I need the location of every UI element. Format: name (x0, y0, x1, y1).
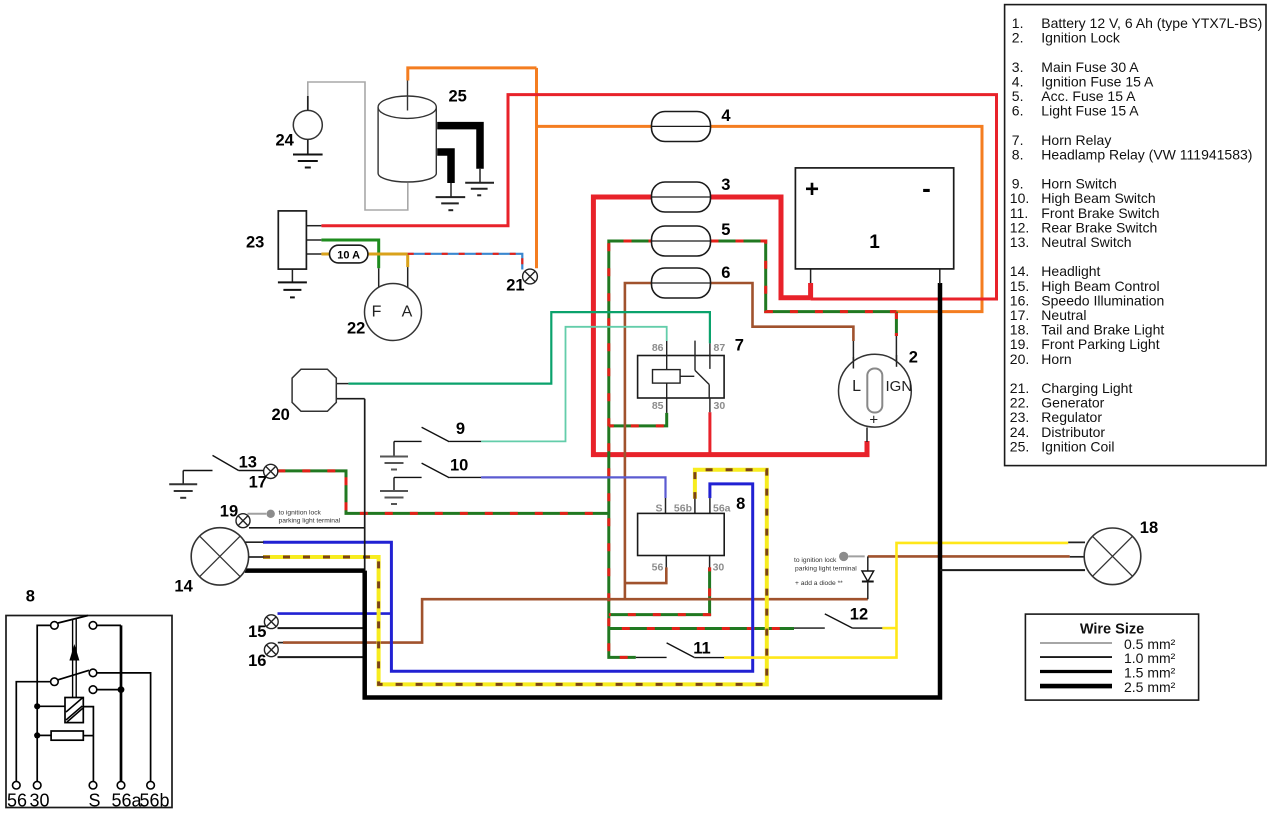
wire green-red branch rear brake switch (609, 627, 794, 630)
svg-text:16.: 16. (1010, 292, 1029, 308)
svg-text:8: 8 (26, 588, 35, 606)
wire size sample 1.0 (1040, 656, 1112, 658)
svg-text:+: + (805, 176, 819, 203)
coil thick wire left (437, 152, 451, 183)
svg-text:13: 13 (239, 454, 257, 472)
svg-text:Horn Relay: Horn Relay (1041, 132, 1111, 148)
svg-text:8.: 8. (1012, 146, 1024, 162)
wire green-red IGN drop (895, 312, 898, 336)
svg-text:Front Parking Light: Front Parking Light (1041, 336, 1159, 352)
wire green generator F (321, 240, 378, 268)
wire amber regulator to generator A (321, 253, 407, 256)
svg-text:5: 5 (721, 221, 730, 239)
distributor ground (293, 155, 323, 168)
wire yellow brake light (724, 543, 1068, 658)
svg-text:4.: 4. (1012, 73, 1024, 89)
svg-text:8: 8 (736, 495, 745, 513)
svg-text:Neutral: Neutral (1041, 307, 1086, 323)
rear brake switch 12 (794, 614, 882, 628)
svg-text:10.: 10. (1010, 190, 1029, 206)
wire black stub horn top (336, 383, 348, 385)
svg-text:15.: 15. (1010, 278, 1029, 294)
wire black stub regulator DF (306, 239, 321, 241)
wire orange coil top (408, 68, 537, 81)
svg-text:19.: 19. (1010, 336, 1029, 352)
svg-text:10: 10 (450, 457, 468, 475)
svg-text:16: 16 (248, 652, 266, 670)
svg-text:Light Fuse 15 A: Light Fuse 15 A (1041, 103, 1139, 119)
svg-text:Ignition Fuse 15 A: Ignition Fuse 15 A (1041, 73, 1154, 89)
wire thick black main ground (365, 283, 940, 698)
fuse 3 (652, 182, 711, 212)
svg-text:24.: 24. (1010, 424, 1029, 440)
inset coil left wire (37, 705, 65, 707)
parking lamp 19 (236, 514, 250, 528)
svg-text:Main Fuse 30 A: Main Fuse 30 A (1041, 59, 1139, 75)
svg-text:Charging Light: Charging Light (1041, 380, 1132, 396)
svg-text:30: 30 (30, 791, 50, 811)
svg-text:13.: 13. (1010, 234, 1029, 250)
coil ground right (465, 183, 494, 196)
tail light 18 (1084, 528, 1141, 585)
svg-text:22.: 22. (1010, 395, 1029, 411)
svg-text:11.: 11. (1010, 205, 1028, 221)
svg-text:IGN: IGN (886, 378, 913, 395)
svg-text:Wire Size: Wire Size (1080, 622, 1144, 638)
svg-text:9.: 9. (1012, 176, 1024, 192)
inset coil (65, 698, 83, 723)
svg-text:Generator: Generator (1041, 395, 1104, 411)
svg-text:Neutral Switch: Neutral Switch (1041, 234, 1131, 250)
note dot at diode (839, 552, 848, 561)
svg-text:Rear Brake Switch: Rear Brake Switch (1041, 219, 1157, 235)
fuse 6 (652, 268, 711, 298)
wire gray distributor-coil (308, 82, 408, 210)
inset mid lever (58, 670, 89, 680)
svg-text:+: + (869, 412, 878, 429)
wire green-red branch relay8 pin30 (609, 567, 710, 614)
svg-text:56a: 56a (713, 503, 731, 515)
wire black stub relay7 pin85 (666, 398, 668, 413)
inset resistor left wire (37, 734, 51, 736)
wire black stub battery minus (939, 269, 941, 284)
svg-text:Regulator: Regulator (1041, 409, 1102, 425)
svg-text:3.: 3. (1012, 59, 1024, 75)
charging light 21 (523, 269, 538, 284)
battery 1 (795, 168, 953, 269)
inset wire mid-bottom to 56a junction (97, 689, 121, 691)
svg-text:18.: 18. (1010, 322, 1029, 338)
high beam lamp 15 (264, 615, 278, 629)
wire blue high beam main (263, 484, 753, 671)
wire thick black headlight ground (245, 568, 365, 573)
svg-text:87: 87 (714, 342, 726, 354)
svg-text:Acc. Fuse 15 A: Acc. Fuse 15 A (1041, 88, 1136, 104)
horn 20 (292, 369, 336, 411)
inset wire to S (92, 736, 94, 782)
relay 7 (638, 356, 725, 399)
wire blue high beam switch to relay8 S (481, 477, 665, 498)
svg-text:7.: 7. (1012, 132, 1024, 148)
wire size sample 1.5 (1040, 670, 1112, 673)
inset junction dot 30b (34, 732, 40, 738)
svg-text:3: 3 (721, 176, 730, 194)
svg-text:17.: 17. (1010, 307, 1029, 323)
wire black stub generator A (407, 267, 409, 288)
inset resistor (51, 731, 83, 740)
svg-text:11: 11 (693, 640, 710, 658)
wire black stub relay8 S (665, 498, 667, 513)
wire blue-red to charging light (408, 254, 523, 270)
svg-text:24: 24 (276, 132, 295, 150)
inset top switch lever (58, 616, 88, 624)
svg-text:Headlight: Headlight (1041, 263, 1100, 279)
svg-text:21.: 21. (1010, 380, 1029, 396)
ground switch 9 (380, 457, 408, 470)
wire orange vertical to charging light (535, 68, 538, 268)
svg-text:25: 25 (449, 88, 467, 106)
wire red relay7 pin30 (708, 412, 711, 454)
wire black stub relay8 pin30 (709, 556, 711, 568)
svg-text:to ignition lock: to ignition lock (279, 510, 322, 517)
inset contact circles (12, 622, 154, 789)
svg-text:-: - (922, 173, 931, 203)
diode (867, 556, 869, 571)
svg-text:85: 85 (652, 400, 664, 412)
inset actuator arrow (69, 644, 79, 661)
inset terminal labels (7, 791, 170, 811)
svg-text:Horn Switch: Horn Switch (1041, 176, 1116, 192)
ignition coil 25 (378, 96, 436, 182)
svg-text:21: 21 (506, 277, 524, 295)
wire black stub relay8 56a (709, 498, 711, 513)
svg-text:9: 9 (456, 420, 465, 438)
wire black stub relay8 pin56 (665, 556, 667, 568)
wire yellow rear brake branch (882, 627, 896, 630)
svg-text:5.: 5. (1012, 88, 1024, 104)
coil ground left (436, 197, 466, 210)
wire black stub IGN (895, 336, 897, 367)
wire brown branch relay8 pin56 (625, 567, 666, 583)
wire green-red branch neutral lamp (278, 471, 609, 514)
inset terminal circles (12, 781, 20, 789)
svg-text:14.: 14. (1010, 263, 1029, 279)
wire black stub regulator B+ (306, 225, 321, 227)
svg-text:17: 17 (249, 474, 267, 492)
svg-text:20.: 20. (1010, 351, 1029, 367)
svg-text:Horn: Horn (1041, 351, 1071, 367)
inset wire mid-top to 56b (97, 673, 151, 782)
inset coil right wire (83, 707, 93, 736)
wire aquamarine horn switch to relay7 pin86 (481, 327, 667, 442)
legend box (1005, 5, 1266, 466)
svg-text:Tail and Brake Light: Tail and Brake Light (1041, 322, 1164, 338)
wire green-red branch relay7 pin85 (609, 413, 667, 426)
svg-text:2.5 mm²: 2.5 mm² (1124, 679, 1176, 695)
wire black tail light ground (940, 569, 1085, 571)
svg-text:14: 14 (174, 578, 193, 596)
wire size sample 2.5 (1040, 684, 1112, 689)
svg-text:Speedo Illumination: Speedo Illumination (1041, 292, 1164, 308)
svg-text:High Beam Switch: High Beam Switch (1041, 190, 1155, 206)
distributor 24 (293, 110, 322, 139)
svg-text:to ignition lock: to ignition lock (794, 557, 837, 564)
svg-text:S: S (655, 503, 662, 515)
svg-text:parking light terminal: parking light terminal (279, 518, 341, 525)
wire thick red main feed (593, 197, 867, 455)
speedo lamp 16 (264, 643, 278, 657)
svg-text:15: 15 (248, 623, 266, 641)
inset wire top to 56a (97, 624, 121, 626)
wire thick red fuse3 to battery plus (711, 197, 811, 298)
relay 8 (638, 513, 725, 555)
wire black parking lamp ground (249, 527, 365, 529)
wire size sample 0.5 (1040, 642, 1112, 644)
wire black stub tail light yellow (1068, 541, 1085, 543)
wire black high beam lamp ground (278, 627, 365, 629)
svg-text:2.: 2. (1012, 30, 1024, 46)
wire size box (1025, 614, 1198, 700)
svg-text:+ add a diode **: + add a diode ** (795, 580, 843, 587)
wire brown fuse6 right to lock L (711, 283, 854, 341)
svg-text:20: 20 (272, 406, 290, 424)
wire orange fuse4 to ignition (711, 126, 983, 311)
svg-text:22: 22 (347, 320, 365, 338)
wire teal horn to relay7 pin87 (348, 312, 710, 384)
fuse 5 (652, 226, 711, 256)
neutral lamp 17 (264, 464, 278, 478)
svg-text:12.: 12. (1010, 219, 1029, 235)
wire black stub regulator D+ (306, 253, 321, 255)
wire battery plus stub (810, 269, 812, 284)
wire brown diode to tail light (868, 555, 1070, 558)
fuse 4 (652, 112, 711, 142)
svg-text:A: A (402, 304, 413, 321)
wire black stub lock plus (866, 428, 868, 443)
svg-text:Distributor: Distributor (1041, 424, 1105, 440)
svg-text:2: 2 (909, 348, 918, 366)
svg-text:1.5 mm²: 1.5 mm² (1124, 665, 1176, 681)
ignition lock 2 (839, 354, 912, 427)
svg-text:23: 23 (246, 234, 264, 252)
svg-text:Battery 12 V, 6 Ah (type YTX7L: Battery 12 V, 6 Ah (type YTX7L-BS) (1041, 15, 1262, 31)
inset wire 30 (37, 625, 50, 781)
svg-text:L: L (852, 378, 861, 395)
wire green-red fuse5 left main vertical (609, 241, 652, 657)
svg-text:30: 30 (713, 562, 725, 574)
inset actuator double line (72, 619, 74, 698)
wire black stub speedo lamp top (278, 642, 284, 644)
regulator ground (278, 282, 307, 297)
note dot at parking lamp (267, 510, 275, 518)
wire black speedo lamp ground (278, 656, 365, 658)
svg-text:6.: 6. (1012, 103, 1024, 119)
regulator 23 (278, 211, 306, 269)
svg-text:High Beam Control: High Beam Control (1041, 278, 1159, 294)
wire black stub generator F (378, 268, 380, 288)
wire orange to fuse4 (537, 125, 652, 128)
svg-text:1: 1 (869, 232, 880, 253)
wire blue high beam control lamp (278, 612, 392, 615)
headlight 14 (191, 528, 248, 585)
svg-text:56: 56 (7, 791, 27, 811)
svg-text:6: 6 (721, 264, 730, 282)
wire red regulator to battery (321, 95, 996, 299)
svg-text:10 A: 10 A (337, 249, 360, 261)
front brake switch 11 (636, 643, 724, 658)
svg-text:1.: 1. (1012, 15, 1024, 31)
inset wire 56 (16, 682, 50, 782)
ground switch 13 (169, 484, 197, 498)
ground switch 10 (380, 491, 408, 504)
wire brown fuse6 left vertical (625, 283, 652, 599)
inset box (6, 616, 172, 808)
svg-text:19: 19 (220, 502, 238, 520)
svg-text:56: 56 (652, 562, 664, 574)
svg-text:Ignition Lock: Ignition Lock (1041, 30, 1121, 46)
wire black ground vertical (364, 399, 366, 571)
inset junction dot 30a (34, 703, 40, 709)
svg-text:25.: 25. (1010, 438, 1029, 454)
svg-text:12: 12 (850, 606, 868, 624)
wire black stub relay8 56b (694, 499, 696, 514)
svg-text:Headlamp Relay (VW 111941583): Headlamp Relay (VW 111941583) (1041, 146, 1252, 162)
svg-text:18: 18 (1140, 519, 1158, 537)
svg-text:4: 4 (721, 107, 731, 125)
wire black stub horn bottom (336, 398, 364, 400)
high beam switch 10 (394, 463, 481, 491)
inset junction dot 56a (118, 686, 125, 693)
wire green-red fuse5 right to IGN (711, 241, 897, 312)
svg-text:30: 30 (714, 400, 726, 412)
inset 56a vertical (120, 625, 123, 781)
svg-text:Ignition Coil: Ignition Coil (1041, 438, 1114, 454)
svg-text:S: S (89, 791, 101, 811)
svg-text:86: 86 (652, 342, 664, 354)
inset resistor right wire (83, 735, 93, 737)
svg-text:F: F (372, 304, 382, 321)
legend text (1010, 15, 1263, 454)
svg-text:parking light terminal: parking light terminal (795, 566, 857, 573)
wire black stub lock L (852, 341, 854, 368)
svg-text:Front Brake Switch: Front Brake Switch (1041, 205, 1159, 221)
svg-text:56a: 56a (112, 791, 143, 811)
horn switch 9 (394, 427, 481, 456)
svg-text:56b: 56b (674, 503, 692, 515)
svg-text:23.: 23. (1010, 409, 1029, 425)
wire black stub tail light brown (1070, 556, 1085, 558)
wire brown rail to diode and speedo lamp (283, 599, 868, 642)
fuse 10A (330, 245, 368, 263)
neutral switch 13 (183, 455, 263, 484)
svg-text:7: 7 (735, 337, 744, 355)
wire yellow-brown low beam (263, 470, 767, 685)
coil thick wire right (437, 126, 480, 169)
generator 22 (365, 284, 422, 341)
svg-text:56b: 56b (140, 791, 170, 811)
